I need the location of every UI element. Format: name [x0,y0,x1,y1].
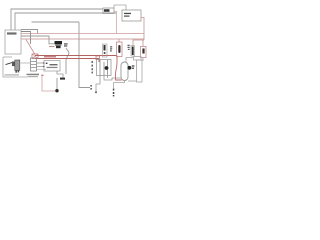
red wire band down to fan motor [116,56,122,81]
pin dot 2 [43,66,45,68]
tiny label near ground run [90,85,91,87]
fuse block F1 [103,8,114,14]
wire fan bottom link [128,80,137,82]
component C4 (breaker) [142,40,144,47]
toggle switch SW1 terminals [15,70,17,72]
red junction into relay R1 [98,59,100,63]
red power band upper line [35,55,117,57]
red power band lower line [35,58,99,60]
fan motor M1 capsule [121,62,128,81]
relay R1 pin number text column [92,61,93,63]
fuse panel box P1 [5,30,21,54]
wire end tick [95,92,97,94]
component C3 (diode) [131,46,135,57]
wire switch ground loop [3,57,28,77]
wire S-curve from C0 down to ground jog [66,48,69,74]
wire battery positive down right side [141,18,144,41]
battery box B1 [122,10,141,21]
pink ground return wire [42,76,56,91]
relay note box U1 [44,61,60,72]
wire switch top stub [3,56,12,58]
fan motor top stub [126,58,134,63]
toggle switch caption [5,74,20,75]
pin dot 1 [43,62,45,64]
relay pin stubs below [96,76,110,94]
red bus A (upper power wire) [21,33,144,35]
fan label text [132,65,135,66]
fuse holder C2 [117,42,123,57]
small dark bar near ground wire [60,78,65,80]
relay R1 internal pin lines [100,60,108,76]
wire fuse block F1 to battery box [114,5,126,10]
wire bus to relay column [32,21,80,23]
red bus B (lower power wire) [21,38,144,40]
relay R1 armature dot [105,66,109,70]
wire fan bottom to dangling lead [114,81,125,89]
dangling lead dashes [113,89,115,91]
red band label text [44,56,56,58]
red wire diagonal panel to switch connector [26,40,35,55]
ground dot G1 [55,89,58,92]
red stub bus to fuse holder C2 [118,39,120,42]
wire F1 down to red bus A [114,12,117,34]
toggle switch SW1 lever [6,62,13,64]
vertical label text 2 [128,45,130,46]
wire strip to relay text box pin 2 [37,66,44,68]
wire from fuse panel top to fuse block F1 [11,9,103,30]
wire panel exit to component lead [21,36,55,44]
red tick at pink wire top [41,75,43,76]
terminal strip J1 [31,58,37,71]
toggle switch SW1 bushing nut [12,62,15,67]
wire corner from bus area to component C3 [133,40,144,46]
component C1 (sensor) [103,44,108,57]
wire second feed into junction [15,13,117,30]
wire long vertical to ground run [79,22,90,88]
wire strip lower pin with dot [37,69,47,71]
wire panel exit jog to bus A [21,30,38,34]
fan frame tall rectangle [137,60,143,82]
vertical label text 1 [110,46,112,47]
wire panel exit down to connector [21,32,31,45]
fan frame top box [134,57,142,61]
caption text under terminal strip [27,74,40,76]
red connector block J2 above terminal strip [32,54,38,59]
wire switch to connector [21,62,31,64]
fan hub dot [127,66,131,70]
resistor/ballast component C0 (dark blob) [55,41,63,44]
wire strip to relay text box pin 1 [37,62,44,64]
toggle switch SW1 body [15,60,20,70]
wire relay to fan bottom [110,78,121,80]
wire relay box down to ground dot G1 [57,71,63,78]
relay R1 outline [97,60,112,76]
label text beside C0 [64,43,68,44]
